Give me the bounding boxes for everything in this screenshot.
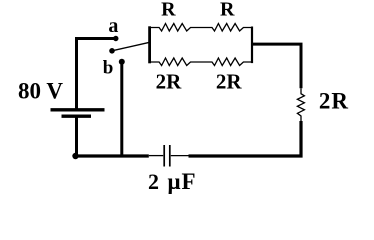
svg-text:b: b bbox=[103, 58, 114, 79]
svg-text:2: 2 bbox=[148, 169, 159, 194]
svg-text:2R: 2R bbox=[319, 88, 349, 113]
svg-text:μ: μ bbox=[168, 169, 181, 194]
svg-text:a: a bbox=[108, 15, 118, 37]
svg-text:F: F bbox=[182, 169, 196, 194]
svg-text:2R: 2R bbox=[156, 70, 183, 94]
svg-text:80 V: 80 V bbox=[18, 79, 63, 104]
svg-text:2R: 2R bbox=[216, 70, 243, 94]
svg-text:R: R bbox=[220, 0, 235, 21]
svg-text:R: R bbox=[161, 0, 176, 21]
